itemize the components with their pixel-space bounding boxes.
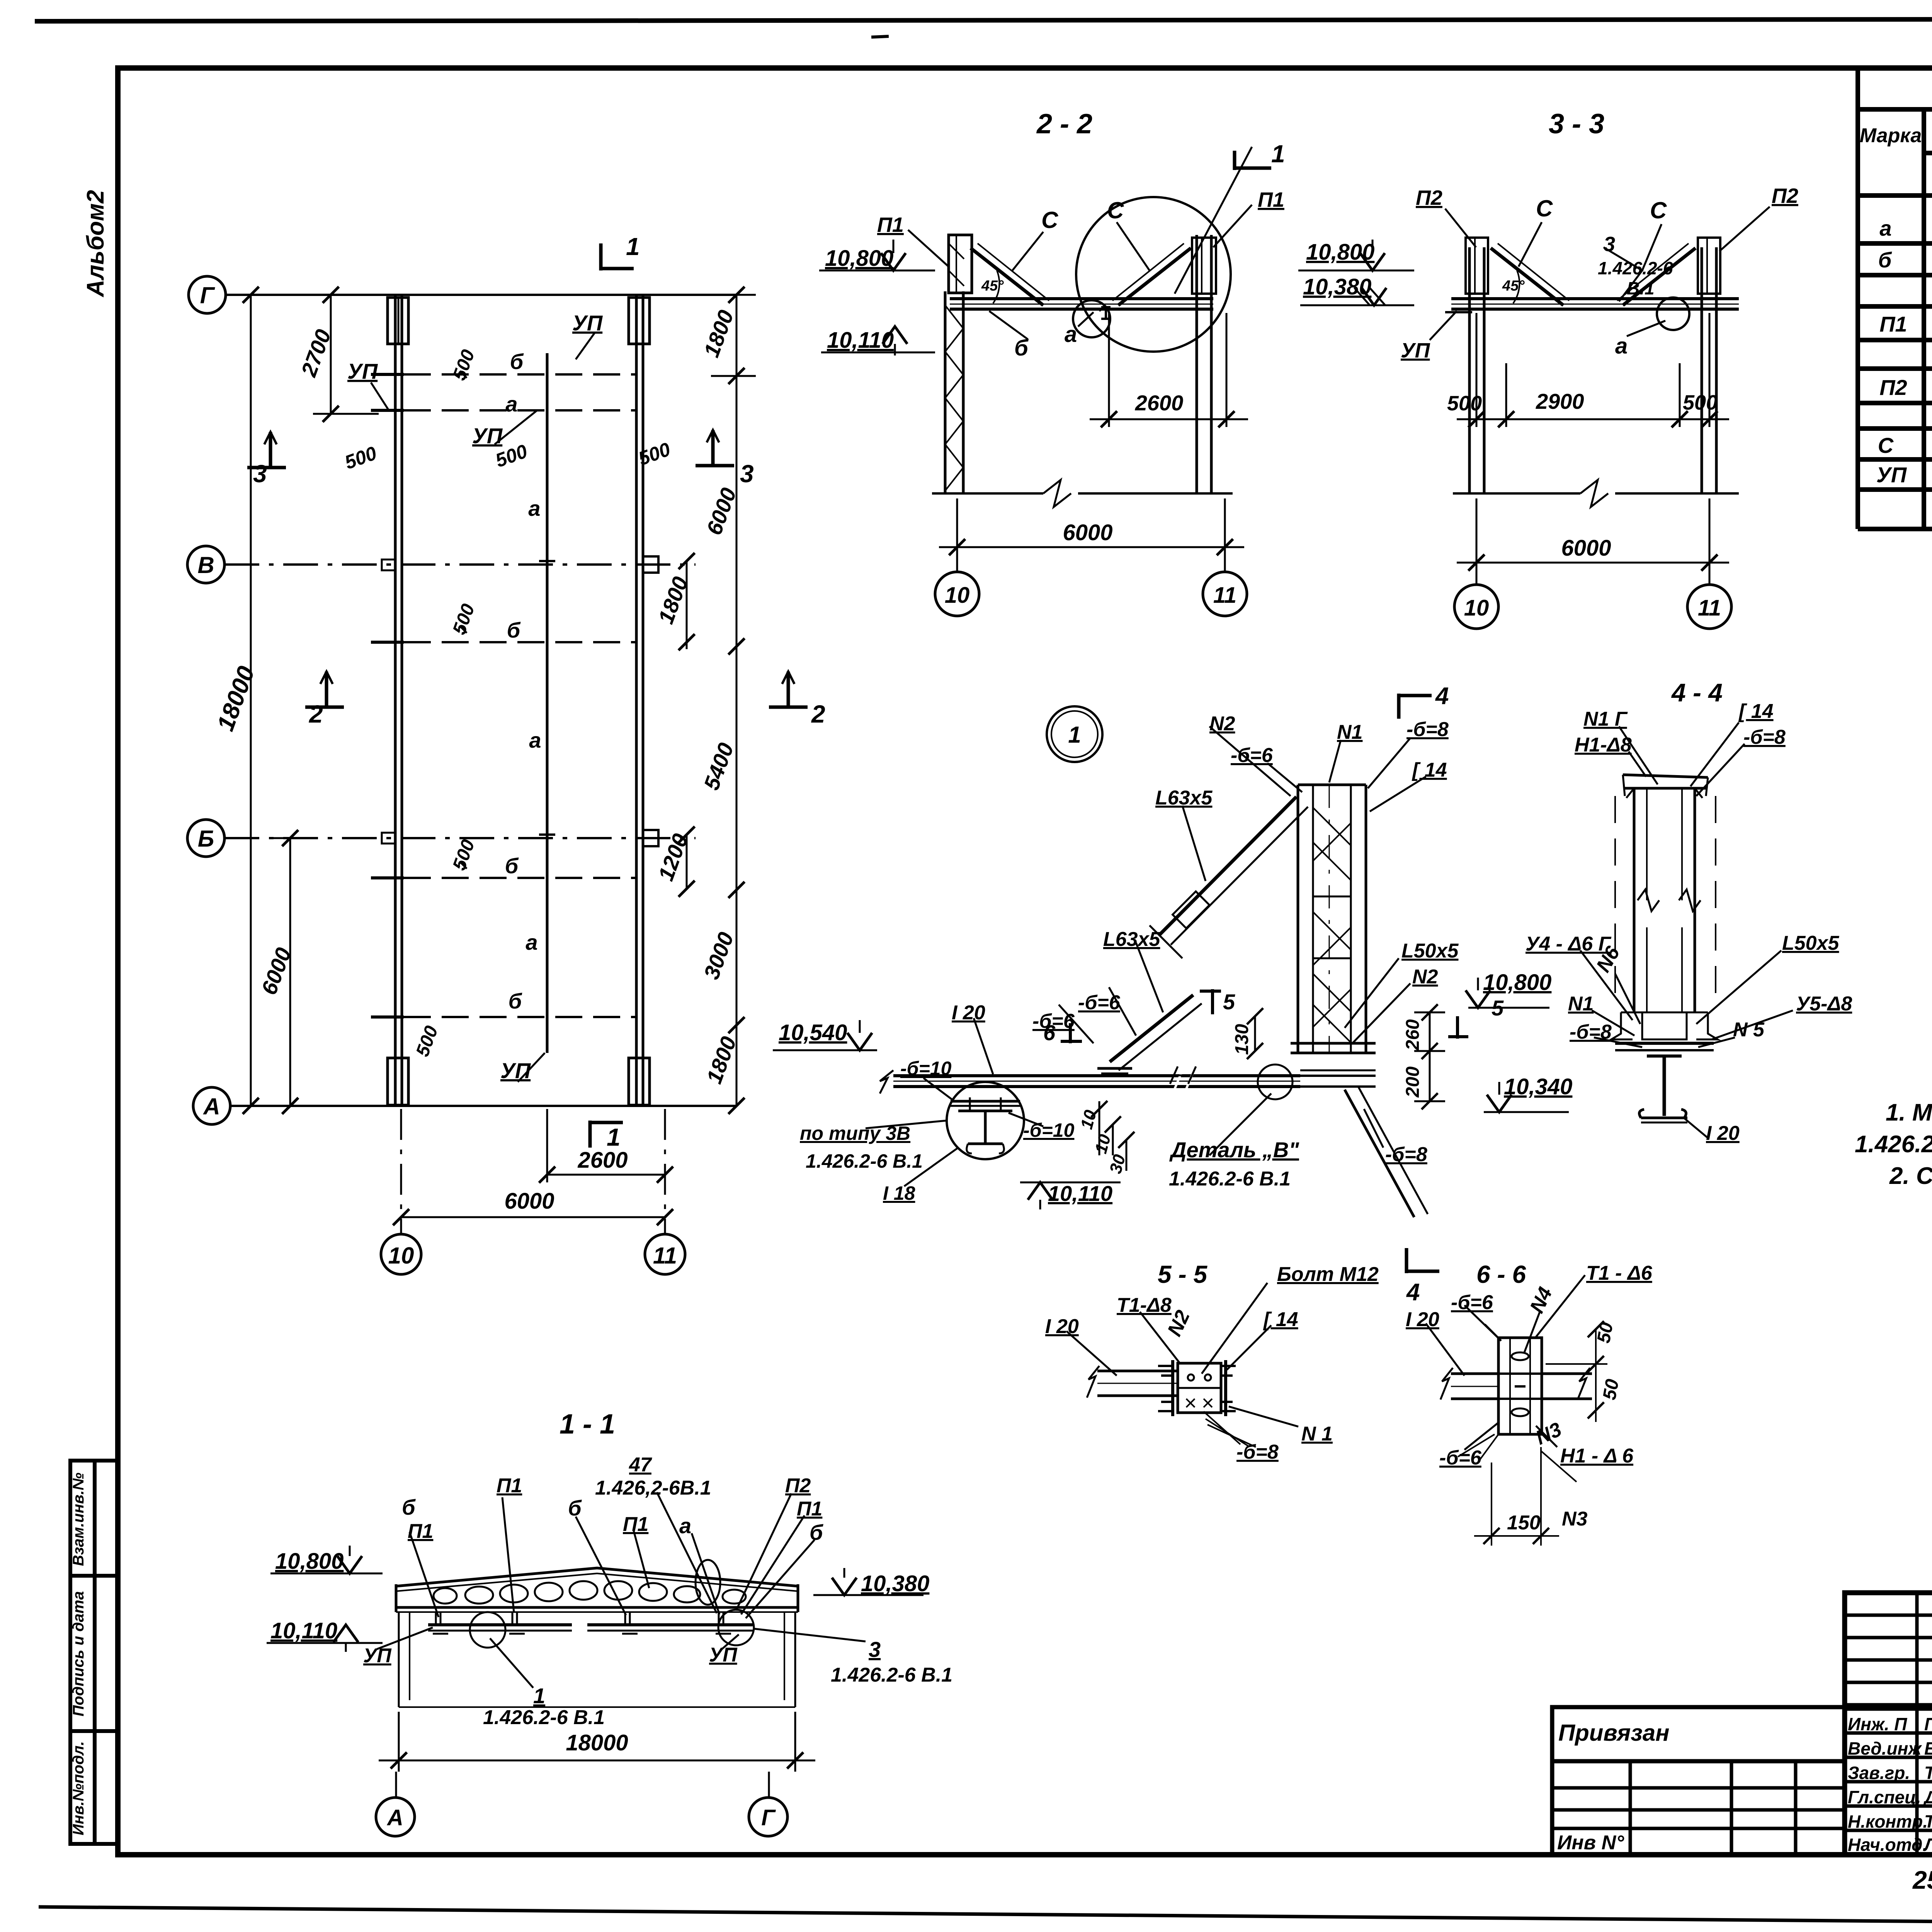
svg-text:6000: 6000 xyxy=(1561,536,1611,561)
svg-text:2: 2 xyxy=(811,700,825,728)
svg-text:б: б xyxy=(1014,335,1029,361)
svg-text:N 1: N 1 xyxy=(1301,1423,1333,1445)
svg-text:-б=6: -б=6 xyxy=(1451,1291,1493,1314)
svg-text:Егоров: Егоров xyxy=(1924,1738,1932,1759)
svg-text:1.426.2-6 В.1: 1.426.2-6 В.1 xyxy=(1169,1168,1291,1190)
svg-text:N 5: N 5 xyxy=(1733,1019,1765,1041)
svg-text:а: а xyxy=(1615,333,1628,359)
svg-text:Н1-Δ8: Н1-Δ8 xyxy=(1575,734,1632,756)
svg-text:10,800: 10,800 xyxy=(825,246,893,271)
svg-text:10,340: 10,340 xyxy=(1504,1074,1572,1099)
svg-text:Вед.инж: Вед.инж xyxy=(1848,1738,1922,1759)
svg-text:б: б xyxy=(509,989,522,1013)
svg-text:L63х5: L63х5 xyxy=(1155,787,1213,809)
svg-text:11: 11 xyxy=(1698,595,1721,621)
svg-text:1: 1 xyxy=(626,233,640,260)
svg-text:А: А xyxy=(386,1805,403,1830)
svg-text:Н.контр.: Н.контр. xyxy=(1848,1811,1928,1832)
svg-text:Трубникова: Трубникова xyxy=(1924,1811,1932,1832)
svg-text:1.426.2-6 вып.1: 1.426.2-6 вып.1 xyxy=(1855,1131,1932,1158)
svg-text:Т1-Δ8: Т1-Δ8 xyxy=(1117,1294,1172,1316)
svg-text:150: 150 xyxy=(1507,1512,1541,1534)
svg-text:N3: N3 xyxy=(1562,1508,1588,1530)
svg-text:47: 47 xyxy=(629,1454,652,1476)
svg-text:260: 260 xyxy=(1403,1019,1423,1051)
svg-text:L50х5: L50х5 xyxy=(1782,932,1840,954)
svg-text:П2: П2 xyxy=(1772,184,1798,207)
svg-text:П1: П1 xyxy=(1879,312,1907,336)
svg-text:УП: УП xyxy=(472,423,503,448)
svg-text:П1: П1 xyxy=(877,213,904,236)
svg-text:2: 2 xyxy=(309,700,323,728)
svg-text:б: б xyxy=(505,854,519,878)
svg-text:10,800: 10,800 xyxy=(1483,970,1551,995)
svg-text:а: а xyxy=(528,496,540,520)
svg-text:А: А xyxy=(202,1094,220,1119)
svg-text:1.426.2-6 В.1: 1.426.2-6 В.1 xyxy=(483,1706,605,1729)
svg-text:I 18: I 18 xyxy=(883,1182,915,1204)
svg-text:-б=8: -б=8 xyxy=(1406,718,1449,741)
svg-text:L63х5: L63х5 xyxy=(1103,928,1161,951)
svg-text:У4 - Δ6 Γ: У4 - Δ6 Γ xyxy=(1526,933,1612,955)
svg-text:10,110: 10,110 xyxy=(1048,1181,1112,1206)
svg-text:В: В xyxy=(197,552,214,578)
svg-text:Н1 - Δ 6: Н1 - Δ 6 xyxy=(1560,1445,1634,1467)
svg-text:а: а xyxy=(529,728,541,752)
svg-text:18000: 18000 xyxy=(566,1730,628,1755)
svg-text:П2: П2 xyxy=(1416,186,1442,209)
svg-text:5: 5 xyxy=(1492,996,1504,1020)
svg-text:С: С xyxy=(1107,197,1124,223)
svg-text:45°: 45° xyxy=(1502,278,1525,294)
svg-text:УП: УП xyxy=(500,1058,531,1083)
svg-text:В.1: В.1 xyxy=(1627,278,1655,298)
svg-text:N1: N1 xyxy=(1337,721,1362,743)
svg-text:L50х5: L50х5 xyxy=(1401,940,1459,962)
svg-text:Дыба: Дыба xyxy=(1923,1787,1932,1807)
svg-text:С: С xyxy=(1041,207,1059,233)
svg-text:Трубникова: Трубникова xyxy=(1924,1763,1932,1783)
svg-text:-б=8: -б=8 xyxy=(1236,1441,1279,1463)
svg-text:-б=6: -б=6 xyxy=(1231,744,1273,767)
svg-text:I 20: I 20 xyxy=(952,1002,985,1024)
svg-text:1.426.2-6: 1.426.2-6 xyxy=(1598,258,1673,278)
svg-text:4 - 4: 4 - 4 xyxy=(1671,678,1723,707)
svg-text:50: 50 xyxy=(1594,1321,1617,1345)
svg-text:6 - 6: 6 - 6 xyxy=(1476,1260,1526,1288)
svg-text:10: 10 xyxy=(945,583,970,608)
svg-text:Подпись и дата: Подпись и дата xyxy=(70,1591,87,1716)
svg-text:Зав.гр.: Зав.гр. xyxy=(1848,1763,1910,1783)
svg-text:N1: N1 xyxy=(1568,993,1594,1015)
svg-text:Лебедев: Лебедев xyxy=(1923,1835,1932,1855)
svg-text:Взам.инв.№: Взам.инв.№ xyxy=(70,1473,87,1566)
svg-text:10,110: 10,110 xyxy=(270,1618,337,1643)
svg-text:1.426,2-6В.1: 1.426,2-6В.1 xyxy=(595,1477,711,1499)
svg-text:3 - 3: 3 - 3 xyxy=(1549,109,1604,139)
svg-text:а: а xyxy=(526,930,537,954)
svg-text:П1: П1 xyxy=(1258,188,1284,211)
svg-text:500: 500 xyxy=(1447,392,1482,415)
svg-text:10: 10 xyxy=(1464,595,1489,621)
svg-text:-б=8: -б=8 xyxy=(1743,726,1786,748)
svg-text:50: 50 xyxy=(1599,1378,1623,1401)
svg-text:I 20: I 20 xyxy=(1706,1122,1740,1145)
svg-text:1 - 1: 1 - 1 xyxy=(560,1409,615,1440)
svg-text:45°: 45° xyxy=(981,278,1004,294)
svg-text:-б=6: -б=6 xyxy=(1439,1447,1482,1469)
svg-text:П1: П1 xyxy=(623,1513,648,1536)
svg-text:Инв.№подл.: Инв.№подл. xyxy=(70,1741,87,1835)
svg-text:УП: УП xyxy=(709,1644,738,1666)
svg-text:УП: УП xyxy=(1876,463,1907,487)
svg-text:Г: Г xyxy=(761,1805,776,1830)
svg-text:б: б xyxy=(507,618,521,642)
svg-text:3: 3 xyxy=(740,460,754,488)
svg-text:П1: П1 xyxy=(797,1498,822,1520)
svg-text:а: а xyxy=(1879,216,1891,240)
svg-text:а: а xyxy=(679,1514,691,1538)
svg-text:10,380: 10,380 xyxy=(861,1571,929,1596)
svg-text:П1: П1 xyxy=(408,1520,433,1543)
svg-text:б: б xyxy=(568,1496,582,1520)
svg-text:2600: 2600 xyxy=(1135,391,1184,415)
svg-text:-б=8: -б=8 xyxy=(1570,1021,1612,1043)
svg-text:10,800: 10,800 xyxy=(275,1549,344,1574)
svg-text:1.426.2-6 В.1: 1.426.2-6 В.1 xyxy=(806,1150,923,1172)
svg-text:С: С xyxy=(1878,433,1894,457)
svg-text:УП: УП xyxy=(572,311,603,335)
svg-text:1: 1 xyxy=(1068,722,1081,748)
svg-text:Инв N°: Инв N° xyxy=(1557,1832,1624,1854)
svg-text:130: 130 xyxy=(1232,1024,1252,1055)
svg-text:-б=8: -б=8 xyxy=(1385,1143,1427,1166)
svg-text:4: 4 xyxy=(1435,683,1449,709)
svg-text:Привязан: Привязан xyxy=(1558,1720,1669,1746)
svg-text:-б=10: -б=10 xyxy=(900,1058,952,1079)
svg-text:11: 11 xyxy=(653,1243,677,1269)
svg-text:1: 1 xyxy=(1271,140,1285,168)
svg-text:Инж. П: Инж. П xyxy=(1848,1714,1907,1734)
svg-text:б: б xyxy=(1878,248,1892,272)
svg-text:10,110: 10,110 xyxy=(827,328,894,353)
svg-text:Т1 - Δ6: Т1 - Δ6 xyxy=(1586,1262,1653,1284)
svg-text:С: С xyxy=(1650,197,1667,223)
svg-text:б: б xyxy=(402,1495,416,1519)
svg-text:Деталь „В": Деталь „В" xyxy=(1169,1138,1299,1162)
svg-text:П1: П1 xyxy=(497,1475,522,1497)
svg-text:2 - 2: 2 - 2 xyxy=(1036,109,1092,139)
svg-text:П2: П2 xyxy=(785,1475,811,1497)
svg-text:Болт М12: Болт М12 xyxy=(1277,1263,1379,1286)
svg-text:10: 10 xyxy=(388,1243,414,1269)
svg-text:Б: Б xyxy=(198,826,214,852)
svg-text:б: б xyxy=(810,1520,823,1544)
svg-text:1.426.2-6 В.1: 1.426.2-6 В.1 xyxy=(831,1664,952,1686)
svg-text:УП: УП xyxy=(1401,339,1430,362)
svg-text:П2: П2 xyxy=(1879,375,1907,400)
svg-text:2600: 2600 xyxy=(577,1148,628,1173)
svg-text:4: 4 xyxy=(1406,1279,1420,1306)
svg-text:10,540: 10,540 xyxy=(779,1020,847,1045)
svg-text:Г: Г xyxy=(200,282,216,308)
svg-text:2. Сварку выполнять по ГОСТ: 2. Сварку выполнять по ГОСТ 5264-80 xyxy=(1889,1163,1932,1189)
svg-text:6000: 6000 xyxy=(1063,520,1112,545)
svg-text:I 20: I 20 xyxy=(1406,1308,1439,1331)
svg-text:6000: 6000 xyxy=(504,1189,554,1214)
svg-text:Нач.отд.: Нач.отд. xyxy=(1848,1835,1927,1855)
svg-text:N2: N2 xyxy=(1209,713,1235,735)
svg-text:а: а xyxy=(1065,322,1077,347)
svg-text:[ 14: [ 14 xyxy=(1412,759,1447,781)
svg-text:[ 14: [ 14 xyxy=(1263,1308,1298,1331)
svg-text:I 20: I 20 xyxy=(1045,1315,1079,1338)
svg-text:С: С xyxy=(1536,196,1553,221)
svg-text:Марка: Марка xyxy=(1860,124,1922,147)
svg-text:а: а xyxy=(505,392,517,416)
svg-text:500: 500 xyxy=(1683,391,1718,414)
svg-text:б: б xyxy=(510,349,524,374)
svg-text:11: 11 xyxy=(1213,583,1236,608)
svg-text:[ 14: [ 14 xyxy=(1738,700,1774,723)
svg-text:Плотникова: Плотникова xyxy=(1924,1714,1932,1734)
svg-text:2900: 2900 xyxy=(1536,389,1584,413)
svg-text:3: 3 xyxy=(869,1637,881,1662)
svg-text:-б=10: -б=10 xyxy=(1023,1119,1075,1141)
svg-text:N1 Γ: N1 Γ xyxy=(1583,708,1628,730)
svg-text:1: 1 xyxy=(607,1123,621,1151)
svg-text:6: 6 xyxy=(1043,1020,1056,1045)
svg-text:Альбом2: Альбом2 xyxy=(82,190,109,298)
svg-text:5 - 5: 5 - 5 xyxy=(1158,1260,1207,1288)
svg-text:3: 3 xyxy=(253,460,267,488)
svg-text:200: 200 xyxy=(1403,1066,1423,1098)
svg-text:У5-Δ8: У5-Δ8 xyxy=(1796,993,1852,1015)
svg-text:-б=6: -б=6 xyxy=(1078,992,1121,1014)
svg-text:по типу 3В: по типу 3В xyxy=(800,1122,910,1144)
svg-text:10,800: 10,800 xyxy=(1306,240,1374,265)
svg-text:1. Монтаж монорельсов выполня: 1. Монтаж монорельсов выполнять в соотве… xyxy=(1886,1099,1932,1126)
svg-text:Гл.спец.: Гл.спец. xyxy=(1848,1787,1921,1807)
svg-text:5: 5 xyxy=(1223,990,1235,1014)
svg-text:10,380: 10,380 xyxy=(1303,274,1371,299)
svg-text:УП: УП xyxy=(347,359,378,383)
svg-text:25388 - 02 72: 25388 - 02 72 xyxy=(1912,1866,1932,1894)
svg-text:УП: УП xyxy=(363,1645,392,1667)
svg-text:N2: N2 xyxy=(1412,966,1438,988)
svg-text:3: 3 xyxy=(1604,233,1615,256)
svg-text:1: 1 xyxy=(533,1684,545,1708)
